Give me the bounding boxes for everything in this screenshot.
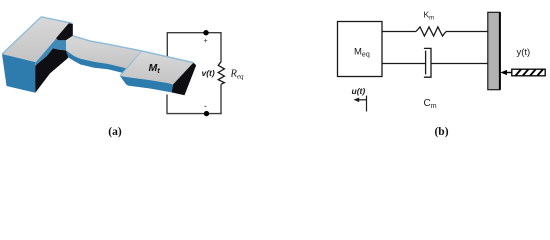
spring Km zigzag <box>416 27 446 36</box>
wire: damper connector right <box>431 63 488 65</box>
clamp block top face <box>2 17 72 62</box>
mass Meq box <box>338 22 383 77</box>
wire: top rail <box>167 32 221 34</box>
blue trim on block top back edge <box>41 17 72 23</box>
svg-text:(a): (a) <box>108 126 122 138</box>
blue trim on beam and plate back edge <box>73 36 194 63</box>
svg-text:Cm: Cm <box>424 98 437 110</box>
svg-text:+: + <box>203 36 207 45</box>
wire: right vertical lower segment <box>220 84 222 114</box>
clamp block right face above beam (black band) <box>56 23 73 40</box>
tip mass plate top face <box>120 51 193 85</box>
svg-text:v(t): v(t) <box>202 68 215 78</box>
wire: bottom rail <box>166 113 221 115</box>
wire: spring connector left <box>382 31 416 33</box>
wire: top-left vertical from tip mass to top rail <box>166 33 168 57</box>
hatched rod for y(t) input <box>512 69 545 76</box>
svg-text:-: - <box>204 102 207 111</box>
wire: right vertical upper segment <box>220 32 222 62</box>
damper Cm cylinder <box>424 48 431 77</box>
svg-text:y(t): y(t) <box>517 47 531 58</box>
node: top terminal dot <box>203 30 208 35</box>
wire: bottom-left vertical from tip mass to bottom rail <box>166 95 168 114</box>
tip mass plate front face (blue strip) <box>120 76 173 92</box>
beam top face (gray, merges with block top) <box>66 36 141 68</box>
tip mass plate right face (black) <box>172 63 197 96</box>
svg-text:Req: Req <box>230 68 245 80</box>
wall right edge thick line <box>499 12 501 89</box>
svg-text:Meq: Meq <box>354 47 370 59</box>
wire: damper connector left <box>382 63 426 65</box>
svg-text:u(t): u(t) <box>352 86 366 96</box>
wall (fixed base) <box>488 12 500 89</box>
u(t) reference tick <box>366 96 368 112</box>
blue trim on block top left edge <box>2 17 41 54</box>
beam front face (blue strip) <box>62 50 126 72</box>
clamp block right face below beam (black) <box>35 48 68 92</box>
svg-text:Km: Km <box>424 10 435 22</box>
arrow: u(t) direction <box>357 99 367 101</box>
black shadow under beam root <box>62 50 69 58</box>
node: bottom terminal dot <box>204 111 209 116</box>
svg-text:(b): (b) <box>434 126 448 138</box>
resistor Req zigzag <box>218 62 224 85</box>
wire: spring connector right <box>446 31 488 33</box>
clamp block front face (blue) <box>2 54 36 93</box>
damper Cm piston plate <box>425 51 427 75</box>
arrow: y(t) excitation arrow <box>506 72 512 74</box>
blue trim on plate left edge <box>120 51 141 76</box>
blue band at beam clamp (lit beam root) <box>36 39 67 65</box>
